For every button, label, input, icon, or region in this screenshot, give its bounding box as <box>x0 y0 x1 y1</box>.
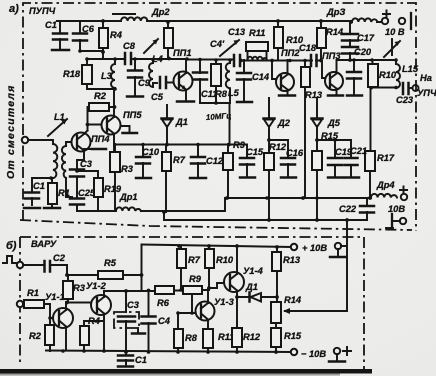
svg-text:С13: С13 <box>228 27 246 37</box>
potentiometer R9b <box>183 274 202 313</box>
resistor R15a caps C19 C21 <box>312 140 351 220</box>
svg-text:ПП4: ПП4 <box>91 134 110 144</box>
svg-text:Др4: Др4 <box>376 180 395 190</box>
ground bus panel b <box>46 351 291 353</box>
svg-text:Др1: Др1 <box>119 192 138 202</box>
svg-text:R5: R5 <box>104 258 117 268</box>
inductor L3 <box>101 59 115 89</box>
svg-text:10МГц: 10МГц <box>206 111 232 122</box>
resistor R8 <box>211 60 228 103</box>
capacitor C23 <box>396 83 419 105</box>
svg-text:Др2: Др2 <box>151 7 170 17</box>
resistor R2b <box>29 318 54 351</box>
svg-text:R8: R8 <box>215 89 228 99</box>
svg-text:R18: R18 <box>63 69 81 79</box>
transistor U1-1 <box>45 292 73 351</box>
svg-text:ПП2: ПП2 <box>281 48 300 58</box>
svg-text:б): б) <box>6 240 17 252</box>
svg-text:У1-2: У1-2 <box>86 281 107 291</box>
capacitor C22 <box>339 198 374 220</box>
resistor R2a <box>88 91 116 131</box>
svg-text:а): а) <box>9 3 19 15</box>
transistor PP1 <box>173 48 194 102</box>
resistor R12a capacitor C16 <box>264 140 288 220</box>
svg-text:С3: С3 <box>127 300 140 310</box>
capacitor C11 <box>193 59 217 103</box>
transistor U1-3 <box>178 289 235 330</box>
svg-text:R9: R9 <box>233 140 246 150</box>
svg-text:Д5: Д5 <box>327 118 341 128</box>
svg-text:От смесителя: От смесителя <box>5 84 17 179</box>
transistor PP5 <box>102 89 143 152</box>
plus 10V terminal b <box>291 243 346 257</box>
resistor R17 <box>365 88 395 198</box>
tank coil L6 <box>248 57 268 60</box>
panel a border <box>20 3 416 231</box>
svg-text:С18: С18 <box>299 43 317 53</box>
wire U1-1 collector to U1-2 base <box>66 302 93 304</box>
transformer L1 <box>48 112 67 178</box>
svg-text:R3: R3 <box>121 164 134 174</box>
svg-text:− 10В: − 10В <box>301 349 326 359</box>
transistor PP4 <box>66 131 110 152</box>
wire collector PP3 tank <box>337 60 396 88</box>
resistor R6 <box>155 286 174 308</box>
choke Dr4 <box>371 180 407 200</box>
svg-text:R4: R4 <box>88 316 101 326</box>
resistor R7a <box>162 145 186 212</box>
svg-text:У1-1: У1-1 <box>45 292 65 302</box>
emitter network C3 C25 R19 <box>66 151 96 211</box>
resistor R3a <box>110 144 134 211</box>
resistor R11 <box>246 28 268 60</box>
node row y59 left <box>87 58 187 60</box>
transistor PP2 <box>272 48 300 96</box>
bottom scan band <box>0 369 372 376</box>
svg-text:С22: С22 <box>339 204 357 214</box>
resistor R12b <box>232 328 261 352</box>
resistor R11b <box>203 329 234 352</box>
resistor R14a <box>317 21 344 60</box>
svg-text:У1-3: У1-3 <box>214 297 235 307</box>
diode D1b <box>237 282 277 302</box>
svg-text:R15: R15 <box>284 331 302 341</box>
choke Dr2 <box>113 7 170 21</box>
resistor R7b <box>177 246 201 290</box>
plus 10V top terminal <box>382 11 411 38</box>
capacitor bypass PP3 <box>347 60 362 96</box>
resistor R15b <box>271 328 302 352</box>
capacitor C13 variable <box>210 27 246 66</box>
svg-text:С12: С12 <box>206 156 224 166</box>
svg-text:С1: С1 <box>45 20 57 30</box>
resistor R3b <box>63 275 86 303</box>
inductor L15 <box>396 60 419 88</box>
wire PP4 collector to PP5 base <box>88 124 104 126</box>
panel b border <box>20 237 364 371</box>
svg-text:ДрЗ: ДрЗ <box>326 7 345 17</box>
svg-text:10 В: 10 В <box>385 27 405 37</box>
svg-text:R6: R6 <box>157 298 170 308</box>
capacitor C5 <box>151 77 174 102</box>
svg-text:С4': С4' <box>210 39 225 49</box>
minus 10V terminal b <box>291 347 351 362</box>
rail B y220 <box>164 212 367 220</box>
svg-text:L5: L5 <box>228 88 240 98</box>
svg-text:С6: С6 <box>82 24 95 34</box>
capacitor C8 <box>123 41 136 64</box>
potentiometer R14b <box>271 295 302 328</box>
svg-text:С4: С4 <box>158 316 171 326</box>
svg-text:R11: R11 <box>249 28 265 38</box>
resistor R5 <box>67 258 142 279</box>
svg-text:R14: R14 <box>284 295 302 305</box>
svg-text:Д1: Д1 <box>245 282 258 292</box>
svg-text:С20: С20 <box>354 47 372 57</box>
svg-text:R2: R2 <box>94 91 107 101</box>
pulse symbol <box>3 256 16 263</box>
svg-text:С3: С3 <box>80 159 93 169</box>
svg-text:R9: R9 <box>189 274 202 284</box>
resistor R19 <box>77 171 122 211</box>
resistor R1b <box>23 288 53 318</box>
capacitors C17 C20 <box>342 23 375 60</box>
rail A y211 <box>77 198 371 211</box>
inductor L4 variable <box>144 39 164 87</box>
svg-text:С23: С23 <box>396 95 414 105</box>
capacitor C1 top <box>45 20 69 50</box>
svg-text:ПУПЧ: ПУПЧ <box>29 6 56 16</box>
svg-text:L1: L1 <box>54 112 65 122</box>
junction dots panel b <box>48 244 279 354</box>
diode D5 column <box>312 98 341 151</box>
capacitor C2 <box>23 253 67 272</box>
capacitor C1 bottom / resistor R1a <box>24 178 53 208</box>
svg-text:R1: R1 <box>58 188 70 198</box>
junction dots panel a <box>49 19 398 222</box>
svg-text:С21: С21 <box>350 146 367 156</box>
svg-text:С15: С15 <box>246 147 264 157</box>
svg-text:Д2: Д2 <box>277 118 291 128</box>
svg-text:R12: R12 <box>269 142 287 152</box>
svg-text:L15: L15 <box>402 64 419 74</box>
inductor L5 <box>226 60 240 102</box>
svg-text:R10: R10 <box>216 255 234 265</box>
diode D2 column <box>264 98 291 153</box>
choke Dr3 <box>326 7 377 22</box>
svg-text:С10: С10 <box>142 147 160 157</box>
wire top bus <box>57 21 381 22</box>
svg-text:R2: R2 <box>29 331 42 341</box>
svg-text:Д1: Д1 <box>175 117 188 127</box>
transistor U1-4 <box>209 246 264 329</box>
svg-text:R12: R12 <box>243 332 261 342</box>
wire row y144 <box>114 144 247 146</box>
label Na UPCH <box>417 73 436 98</box>
choke Dr1 <box>116 192 141 211</box>
resistor R8b <box>174 313 198 352</box>
svg-text:УПЧ: УПЧ <box>417 88 436 98</box>
svg-text:L3: L3 <box>101 71 113 81</box>
svg-text:ПП1: ПП1 <box>173 48 192 58</box>
capacitor C4b <box>142 245 171 353</box>
wire node row y103 <box>200 103 230 144</box>
resistor R13a <box>301 60 323 198</box>
wire top bus b <box>142 245 292 248</box>
resistor R10 right <box>368 60 397 87</box>
svg-text:С17: С17 <box>357 33 375 43</box>
svg-text:С8: С8 <box>123 41 136 51</box>
wire y60 mid <box>187 60 322 61</box>
capacitor C12 <box>190 145 224 178</box>
svg-text:10В: 10В <box>388 204 405 214</box>
svg-text:С14: С14 <box>252 72 270 82</box>
capacitor C18 <box>299 43 317 66</box>
svg-text:С5: С5 <box>151 92 164 102</box>
capacitor C6 <box>73 21 103 51</box>
svg-text:С16: С16 <box>286 148 304 158</box>
svg-text:R4: R4 <box>110 30 123 40</box>
svg-text:С2: С2 <box>53 253 66 263</box>
svg-text:R8: R8 <box>185 333 198 343</box>
svg-text:ПП5: ПП5 <box>123 110 142 120</box>
trimmer arrow <box>384 39 400 57</box>
svg-text:R13: R13 <box>283 255 301 265</box>
svg-text:R17: R17 <box>377 153 395 163</box>
svg-text:С1: С1 <box>135 355 147 365</box>
capacitor C1b <box>118 352 147 367</box>
svg-text:R10: R10 <box>379 70 397 80</box>
svg-text:На: На <box>420 73 432 83</box>
resistor R10 <box>274 21 304 60</box>
svg-text:R3: R3 <box>73 283 86 293</box>
svg-text:С1: С1 <box>33 181 45 191</box>
capacitor C10 <box>136 145 160 178</box>
svg-text:R1: R1 <box>27 288 39 298</box>
resistor R18 <box>63 59 115 89</box>
capacitor C9 <box>127 59 151 97</box>
svg-text:У1-4: У1-4 <box>243 266 264 276</box>
svg-text:+ 10В: + 10В <box>302 243 327 253</box>
resistor collector PP1 <box>164 23 173 59</box>
svg-text:ВАРУ: ВАРУ <box>31 239 57 249</box>
capacitor C3b shielded <box>114 291 145 352</box>
resistor R10b <box>205 246 234 288</box>
wire y291 <box>104 288 209 291</box>
resistor R13b <box>272 247 301 302</box>
minus 10V bottom-a terminal <box>386 204 406 228</box>
svg-text:R13: R13 <box>305 90 323 100</box>
svg-text:R7: R7 <box>188 255 201 265</box>
transistor PP3 <box>322 51 343 96</box>
capacitor C14 <box>237 60 270 102</box>
transistor U1-2 <box>86 281 111 351</box>
input terminals panel b <box>17 262 23 307</box>
diode D1a <box>162 105 188 144</box>
resistor R4b <box>80 316 104 351</box>
svg-text:R7: R7 <box>173 155 186 165</box>
svg-text:R14: R14 <box>326 27 344 37</box>
feedback wire to panel b <box>283 220 347 314</box>
resistor R4 <box>99 21 123 59</box>
input terminal left <box>22 137 53 144</box>
resistor R9a capacitor C15 <box>223 140 246 198</box>
